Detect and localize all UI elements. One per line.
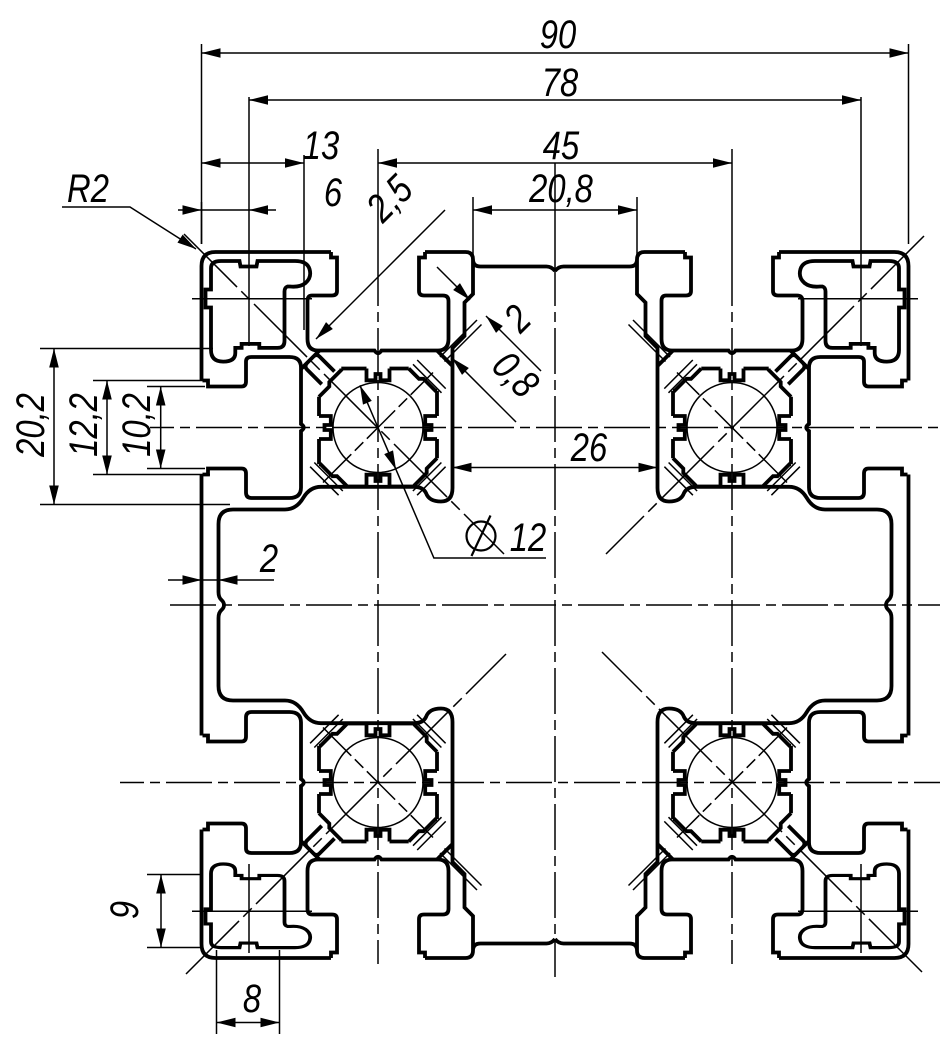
svg-text:2: 2: [259, 536, 278, 581]
corner cavity top-left: [206, 261, 311, 362]
T-slot right-lower: [806, 712, 907, 853]
dimension 8: [217, 950, 280, 1034]
svg-text:20,2: 20,2: [8, 393, 53, 458]
profile corner block top-left: [202, 252, 332, 381]
corner web top-left: [301, 351, 335, 385]
dimension 90: [202, 44, 909, 244]
corner cavity bottom-right: [800, 864, 905, 948]
screw boss bottom-left: [310, 715, 446, 850]
corner cavity bottom-left: [206, 864, 311, 948]
dimension 2,5: [316, 210, 445, 339]
thin web 0.8 bottom-right: [629, 849, 671, 891]
corner web bottom-left: [301, 826, 335, 860]
dimension 20,2: [40, 349, 230, 505]
svg-text:9: 9: [102, 901, 147, 919]
corner diagonal top-right: [606, 236, 924, 554]
thin web 0.8 top-left: [440, 320, 482, 362]
dimension 45: [378, 162, 732, 164]
boss row centreline upper: [150, 427, 940, 429]
svg-text:12,2: 12,2: [61, 393, 106, 457]
dimension 13: [202, 155, 305, 330]
T-slot left-upper: [203, 357, 304, 498]
svg-text:12: 12: [510, 515, 546, 560]
T-slot bottom-left: [308, 857, 449, 958]
top channel and void boundary right half: [555, 252, 892, 605]
corner cavity top-right: [800, 261, 905, 362]
T-slot right-upper: [806, 357, 907, 498]
dimension 78: [249, 99, 861, 101]
boss column centreline left: [377, 149, 379, 260]
bottom channel and void boundary right half: [555, 605, 892, 958]
svg-text:10,2: 10,2: [114, 393, 159, 457]
corner web bottom-right: [776, 826, 810, 860]
T-slot bottom-right: [662, 857, 803, 958]
vertical centreline: [554, 163, 556, 260]
dimension 6: [178, 202, 276, 244]
dimension 26: [453, 467, 658, 469]
corner diagonal top-left: [184, 234, 504, 554]
svg-text:8: 8: [243, 976, 262, 1021]
svg-text:6: 6: [324, 170, 343, 215]
corner web top-right: [776, 351, 810, 385]
screw boss top-left: [310, 360, 446, 495]
T-slot top-left: [308, 252, 449, 353]
profile corner block top-right: [779, 252, 909, 381]
T-slot left-lower: [203, 712, 304, 853]
horizontal centreline: [170, 604, 940, 606]
svg-text:R2: R2: [67, 166, 109, 211]
dimension 12,2: [93, 381, 210, 475]
bottom channel and void boundary left half: [219, 605, 556, 958]
corner cavity axis marks bottom-right: [798, 864, 918, 953]
dimension 0,8: [452, 358, 516, 422]
boss row centreline lower: [120, 782, 940, 784]
profile corner block bottom-left: [202, 830, 332, 959]
svg-text:20,8: 20,8: [528, 166, 593, 211]
boss column centreline right: [731, 149, 733, 260]
svg-text:78: 78: [542, 60, 579, 105]
right face middle: [907, 475, 911, 736]
thin web 0.8 top-right: [629, 320, 671, 362]
thin web 0.8 bottom-left: [440, 849, 482, 891]
left face middle: [200, 475, 204, 736]
screw boss top-right: [664, 360, 800, 495]
label R2 with leader: [62, 207, 196, 249]
corner cavity axis marks bottom-left: [192, 864, 312, 953]
svg-text:26: 26: [570, 425, 608, 470]
corner cavity axis marks top-left: [192, 97, 312, 346]
corner cavity axis marks top-right: [798, 97, 918, 346]
dimension 2 left: [168, 579, 274, 581]
dimension diameter 12: [360, 385, 546, 558]
dimension 2 upper: [437, 267, 541, 371]
dimension 9: [147, 875, 200, 948]
screw boss bottom-right: [664, 715, 800, 850]
svg-text:13: 13: [303, 123, 340, 168]
svg-text:90: 90: [540, 12, 577, 57]
profile corner block bottom-right: [779, 830, 909, 959]
svg-text:45: 45: [543, 123, 580, 168]
corner diagonal bottom-left: [186, 654, 506, 974]
dimension 20,8: [473, 197, 637, 262]
T-slot top-right: [662, 252, 803, 353]
top channel and void boundary left half: [219, 252, 556, 605]
corner diagonal bottom-right: [602, 652, 922, 972]
dimension 10,2: [147, 387, 205, 469]
